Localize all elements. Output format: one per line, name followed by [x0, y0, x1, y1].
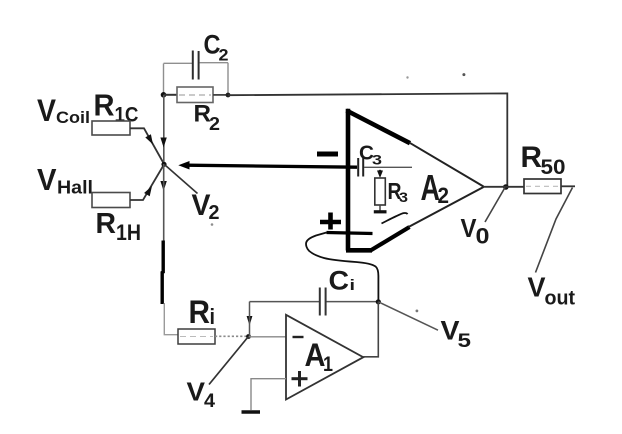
svg-text:3: 3	[399, 189, 408, 205]
wire A2 plus input thick	[327, 233, 373, 234]
svg-text:V: V	[37, 162, 57, 197]
wire V4 pointer	[209, 337, 248, 385]
svg-text:R: R	[96, 208, 117, 240]
resistor Ri	[178, 329, 215, 344]
resistor R3	[375, 178, 386, 205]
label VCoil	[37, 92, 90, 128]
op-amp A2 bottom edge thin part	[409, 187, 484, 227]
label V0	[461, 213, 490, 249]
op-amp A2 plus sign	[320, 213, 341, 230]
node Ci output	[376, 299, 381, 304]
op-amp A1 triangle	[286, 315, 363, 400]
wire thick V2 to C3	[187, 165, 357, 167]
wire A1 minus input	[249, 336, 287, 338]
speck top right	[462, 73, 465, 76]
svg-text:0: 0	[476, 224, 490, 249]
svg-text:3: 3	[372, 153, 383, 168]
svg-text:Coil: Coil	[56, 109, 90, 127]
capacitor Ci plates	[320, 288, 326, 316]
speck below V2 label	[211, 223, 214, 226]
svg-text:V: V	[37, 92, 56, 128]
wire Ci feedback horizontal left	[250, 301, 320, 303]
capacitor C2 label	[204, 30, 229, 65]
speck top left	[406, 76, 408, 78]
wire Vout pointer	[536, 188, 573, 273]
capacitor C3 label	[359, 143, 383, 168]
wire R2 right lead	[213, 94, 228, 96]
svg-text:2: 2	[209, 201, 220, 224]
svg-text:R: R	[94, 88, 115, 123]
resistor R1C label	[94, 88, 139, 127]
wire V0 pointer	[485, 188, 505, 223]
resistor R50	[524, 179, 561, 194]
label V2	[192, 189, 220, 224]
node A2 output	[503, 184, 509, 190]
op-amp A1 minus sign	[293, 336, 304, 338]
op-amp A2 minus sign	[317, 152, 338, 157]
svg-text:i: i	[350, 277, 356, 294]
svg-text:C: C	[329, 266, 350, 296]
svg-text:i: i	[210, 304, 216, 329]
speck near V5	[416, 310, 419, 313]
wire C3 output	[364, 166, 412, 168]
op-amp A1 plus sign	[292, 371, 308, 387]
arrow left into node V2	[178, 161, 189, 170]
svg-text:1: 1	[323, 353, 333, 376]
svg-text:2: 2	[438, 183, 450, 208]
svg-text:50: 50	[541, 155, 566, 179]
wire left vertical lower	[163, 164, 165, 241]
capacitor C3 plates	[358, 158, 363, 177]
resistor R1H	[92, 193, 130, 208]
label VHall	[37, 162, 93, 198]
svg-text:V: V	[528, 272, 546, 303]
wire Ri right lead	[215, 335, 249, 337]
wire V2 pointer	[165, 165, 198, 194]
wire A1 plus input	[251, 379, 286, 410]
arrow down into node V2	[160, 138, 166, 148]
wire C2 top left horizontal	[164, 62, 193, 64]
capacitor Ci label	[329, 266, 356, 296]
wire freehand stroke near A2 bottom edge	[382, 213, 408, 223]
svg-text:4: 4	[204, 391, 215, 412]
svg-text:out: out	[545, 288, 576, 310]
op-amp A1 label	[305, 337, 334, 376]
wire A1 output vertical	[363, 302, 378, 357]
wire C2 loop left vertical	[163, 64, 165, 96]
wire feedback top to A2 output	[228, 93, 507, 187]
resistor R3 label	[388, 178, 409, 205]
wire C2 loop right vertical	[227, 63, 229, 95]
svg-text:1H: 1H	[116, 220, 141, 245]
wire Ci feedback vertical left	[249, 302, 251, 337]
svg-text:R: R	[521, 141, 543, 174]
svg-text:Hall: Hall	[57, 178, 93, 198]
wire C2 top right horizontal	[200, 62, 229, 64]
wire grey vertical to Ri	[164, 303, 178, 335]
arrow on R1H diagonal	[144, 186, 152, 196]
label V5	[441, 316, 472, 353]
wire freehand A2 plus to Ci node	[306, 233, 378, 302]
wire R3 to ground	[379, 205, 381, 211]
arrow down into R3	[377, 171, 383, 179]
wire R2 left lead	[164, 94, 178, 96]
op-amp A2 top edge thin part	[410, 143, 484, 187]
svg-text:V: V	[187, 377, 206, 407]
resistor R2 label	[194, 101, 221, 135]
svg-text:5: 5	[458, 330, 472, 352]
wire R1H right lead	[130, 165, 164, 201]
arrow down below node V2	[160, 181, 166, 191]
arrow on R1C diagonal	[145, 134, 153, 144]
resistor R1H label	[96, 208, 142, 245]
node V2 junction	[161, 162, 166, 167]
svg-text:2: 2	[209, 113, 220, 134]
label V4	[187, 377, 216, 413]
wire A2 output	[484, 186, 525, 188]
resistor Ri label	[189, 294, 216, 330]
ground below R3	[374, 210, 387, 213]
svg-text:R: R	[189, 294, 211, 330]
op-amp A2 top edge thick part	[347, 111, 411, 144]
resistor R1C	[92, 121, 130, 135]
label Vout	[528, 272, 576, 310]
node Ri output	[246, 334, 251, 339]
op-amp A2 label	[421, 167, 450, 208]
ground below A1 plus	[242, 410, 261, 414]
wire left vertical upper	[163, 95, 165, 164]
node at R2 right	[226, 93, 231, 98]
wire R50 right lead	[561, 185, 575, 187]
arrow down into Ri node	[247, 316, 253, 326]
wire Ci to output node	[327, 301, 379, 303]
op-amp A2 bottom edge thick horizontal	[346, 248, 372, 253]
wire V5 pointer	[378, 302, 438, 330]
wire R1C right lead	[130, 128, 164, 164]
resistor R50 label	[521, 141, 566, 179]
node C3-R3	[378, 170, 382, 174]
svg-text:2: 2	[219, 46, 229, 65]
op-amp A2 triangle left edge (thick)	[346, 109, 351, 251]
wire thick marker vertical segment	[162, 241, 163, 305]
op-amp A2 bottom edge thick diagonal	[371, 227, 410, 251]
capacitor C2 plates	[193, 51, 199, 80]
node at R2 left	[161, 92, 167, 98]
resistor R2	[177, 87, 213, 103]
